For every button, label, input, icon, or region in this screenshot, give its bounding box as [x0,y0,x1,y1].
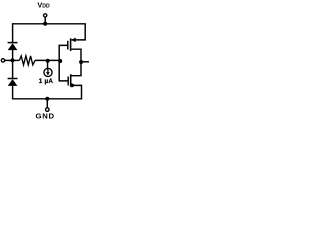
wire output stub to right edge [81,61,89,63]
svg-text:VDD: VDD [37,1,50,10]
wire left rail lower segment [12,86,14,99]
wire bottom rail GND [12,98,82,100]
svg-text:GND: GND [36,112,55,121]
terminal VDD [44,14,47,17]
node junction dot output drains [79,60,83,64]
wire left rail upper segment [12,24,14,42]
node junction dot GND rail [45,97,49,101]
transistor Q1 PMOS [68,24,85,62]
wire left rail between diodes [12,50,14,78]
wire VDD terminal to rail [44,17,46,24]
wire input terminal to resistor [5,59,20,61]
wire gate bus with gate leads [59,45,68,81]
node junction dot gate bus [58,59,62,63]
wire current source tap [47,60,49,68]
transistor Q2 NMOS [68,62,81,99]
resistor R [19,56,35,65]
svg-text:1 µA: 1 µA [39,78,54,85]
diode D2 (GND to input) [8,79,18,86]
wire top rail VDD [12,23,86,25]
wire GND terminal to rail [46,99,48,108]
node junction dot input at left rail [11,58,15,62]
wire resistor to gate bus [35,59,59,61]
diode D1 (input to VDD) [8,43,18,51]
node junction dot VDD rail [43,22,47,26]
terminal GND [46,108,50,112]
terminal input [1,59,4,62]
current source I1 1uA [44,68,52,76]
node junction dot current source tap [46,59,50,63]
